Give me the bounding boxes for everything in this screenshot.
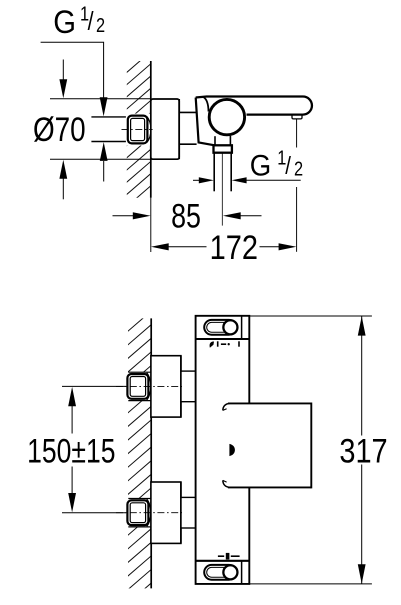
svg-text:/: /: [88, 7, 94, 37]
svg-text:2: 2: [294, 157, 303, 180]
svg-text:G: G: [53, 4, 76, 41]
svg-text:317: 317: [339, 431, 387, 470]
svg-text:Ø70: Ø70: [33, 110, 86, 148]
svg-text:/: /: [285, 151, 291, 179]
svg-text:172: 172: [210, 227, 258, 266]
svg-text:G: G: [250, 149, 271, 182]
svg-text:2: 2: [96, 13, 105, 36]
svg-text:85: 85: [171, 197, 201, 235]
svg-text:150±15: 150±15: [27, 433, 115, 471]
